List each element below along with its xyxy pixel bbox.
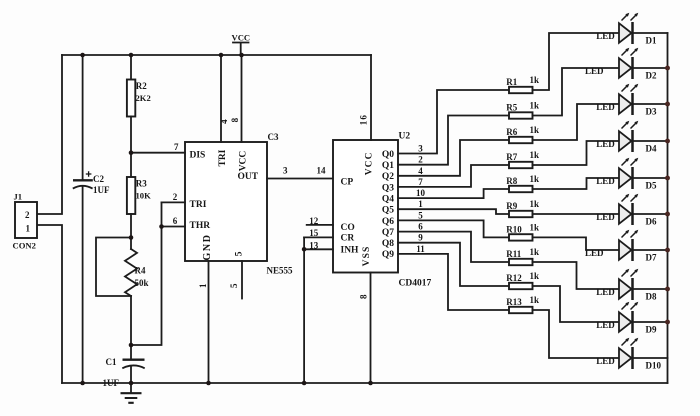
svg-text:R5: R5 xyxy=(506,103,517,113)
LED D10 xyxy=(596,338,667,371)
svg-text:1k: 1k xyxy=(530,101,540,111)
svg-text:R6: R6 xyxy=(506,127,517,137)
wire CR/INH tie to ground rail xyxy=(303,237,305,383)
wire 555 pin8 to VCC rail xyxy=(241,55,243,142)
svg-text:D4: D4 xyxy=(646,143,657,153)
resistor R13 1k xyxy=(506,295,539,313)
svg-text:J1: J1 xyxy=(14,192,23,202)
wire 4017 Q1 pin2 to R5 xyxy=(398,116,509,165)
svg-text:8: 8 xyxy=(230,117,240,122)
svg-text:VCC: VCC xyxy=(364,151,374,175)
node R4/C1/THR junction xyxy=(129,343,134,348)
svg-text:1: 1 xyxy=(26,224,31,234)
svg-text:Q7: Q7 xyxy=(382,228,394,238)
svg-text:12: 12 xyxy=(309,216,319,226)
svg-text:1k: 1k xyxy=(530,271,540,281)
ground xyxy=(121,383,142,403)
resistor R11 1k xyxy=(506,247,539,265)
svg-text:THR: THR xyxy=(190,221,211,231)
svg-text:7: 7 xyxy=(418,177,423,187)
svg-text:1k: 1k xyxy=(530,150,540,160)
svg-text:R12: R12 xyxy=(506,273,522,283)
wire 555 OUT pin3 to 4017 CP pin14 xyxy=(267,178,333,180)
svg-text:D3: D3 xyxy=(646,106,657,116)
capacitor C2 1UF xyxy=(73,55,110,383)
resistor R9 1k xyxy=(506,199,539,217)
resistor R1 1k xyxy=(506,75,539,93)
svg-text:D2: D2 xyxy=(646,70,657,80)
svg-text:LED: LED xyxy=(596,176,615,186)
svg-text:D6: D6 xyxy=(646,216,657,226)
wire R12 to LED D9 xyxy=(533,286,620,322)
svg-text:Q9: Q9 xyxy=(382,250,394,260)
svg-text:CO: CO xyxy=(341,223,355,233)
wire 4017 Q2 pin4 to R6 xyxy=(398,140,509,176)
wire top VCC rail xyxy=(62,54,371,56)
svg-text:8: 8 xyxy=(359,294,369,299)
wire 4017 Q5 pin1 to R9 xyxy=(398,209,509,214)
svg-text:CD4017: CD4017 xyxy=(399,279,432,289)
svg-text:2: 2 xyxy=(418,155,423,165)
svg-text:1: 1 xyxy=(418,199,423,209)
wire 555 TRI pin2 xyxy=(162,201,186,203)
svg-text:U2: U2 xyxy=(399,132,411,142)
wire 4017 VSS pin8 to ground rail xyxy=(370,273,372,384)
svg-text:C3: C3 xyxy=(268,132,279,142)
counter U2 CD4017 xyxy=(333,132,431,289)
svg-text:10: 10 xyxy=(416,188,426,198)
wire left rail upper (J1 pin2 to VCC rail) xyxy=(37,55,62,214)
svg-text:9: 9 xyxy=(418,233,423,243)
svg-text:R2: R2 xyxy=(136,81,147,91)
node R3/R4/wiper junction xyxy=(129,235,134,240)
wire 4017 Q8 pin9 to R12 xyxy=(398,243,509,286)
wire R8 to LED D5 xyxy=(533,178,620,189)
svg-text:LED: LED xyxy=(596,139,615,149)
node CR/INH tie junction xyxy=(302,247,307,252)
resistor R7 1k xyxy=(506,150,539,168)
svg-text:C1: C1 xyxy=(106,357,117,367)
svg-text:CR: CR xyxy=(341,233,355,243)
svg-text:R4: R4 xyxy=(135,266,146,276)
svg-text:15: 15 xyxy=(309,228,319,238)
svg-text:16: 16 xyxy=(358,114,368,125)
LED D9 xyxy=(596,302,667,335)
svg-text:5: 5 xyxy=(418,210,423,220)
wire 4017 Q3 pin7 to R7 xyxy=(398,165,509,187)
svg-text:LED: LED xyxy=(596,212,615,222)
resistor R8 1k xyxy=(506,174,539,192)
svg-text:VCC: VCC xyxy=(238,151,248,172)
svg-text:1UF: 1UF xyxy=(93,185,110,195)
svg-text:10K: 10K xyxy=(136,190,152,200)
svg-text:LED: LED xyxy=(596,320,615,330)
svg-text:R8: R8 xyxy=(506,176,517,186)
svg-text:5: 5 xyxy=(229,283,239,288)
svg-text:LED: LED xyxy=(596,356,615,366)
wire 4017 CR pin15 xyxy=(304,236,333,238)
wire 555 pin1 GND to rail xyxy=(208,261,210,383)
LED D5 xyxy=(596,158,667,191)
svg-text:Q4: Q4 xyxy=(382,195,394,205)
svg-text:VSS: VSS xyxy=(362,246,372,267)
svg-text:Q1: Q1 xyxy=(382,161,394,171)
wire right LED cathode rail xyxy=(667,33,669,383)
wire 4017 Q6 pin5 to R10 xyxy=(398,220,509,237)
svg-text:R11: R11 xyxy=(506,249,522,259)
svg-text:1k: 1k xyxy=(530,75,540,85)
svg-text:R10: R10 xyxy=(506,224,522,234)
svg-text:OUT: OUT xyxy=(238,172,259,182)
LED D1 xyxy=(596,13,667,46)
svg-text:1: 1 xyxy=(198,283,208,288)
svg-text:1UF: 1UF xyxy=(103,378,120,388)
wire R9 to LED D6 xyxy=(533,213,620,215)
wire R4 wiper loop xyxy=(96,238,131,297)
LED D8 xyxy=(596,269,667,302)
svg-text:D7: D7 xyxy=(646,252,657,262)
wire R1 to LED D1 xyxy=(533,33,620,90)
wire 4017 Q7 pin6 to R11 xyxy=(398,232,509,262)
svg-text:VCC: VCC xyxy=(232,33,251,43)
svg-text:D1: D1 xyxy=(646,35,657,45)
svg-text:TRI: TRI xyxy=(218,149,228,166)
svg-text:1k: 1k xyxy=(530,222,540,232)
svg-text:6: 6 xyxy=(418,222,423,232)
resistor R3 10K xyxy=(127,177,151,238)
node LED cathode rail junctions xyxy=(665,66,670,71)
svg-text:Q3: Q3 xyxy=(382,183,394,193)
node TRI/THR tie junction xyxy=(159,224,164,229)
wire TRI/THR tie down to C1 node xyxy=(131,202,162,345)
wire 555 pin4 to VCC rail xyxy=(220,55,222,142)
svg-text:D10: D10 xyxy=(646,360,662,370)
wire bottom ground rail xyxy=(62,382,668,384)
node R2/R3/DIS junction xyxy=(129,150,134,155)
svg-text:6: 6 xyxy=(173,216,178,226)
resistor R10 1k xyxy=(506,222,539,240)
wire R6 to LED D3 xyxy=(533,104,620,140)
svg-text:50k: 50k xyxy=(135,278,149,288)
svg-text:D9: D9 xyxy=(646,324,657,334)
wire 4017 Q9 pin11 to R13 xyxy=(398,254,509,310)
wire 4017 INH pin13 xyxy=(304,248,333,250)
wire R11 to LED D8 xyxy=(533,262,620,289)
wire 4017 CO pin12 stub xyxy=(307,224,333,226)
svg-text:1k: 1k xyxy=(530,199,540,209)
svg-text:R7: R7 xyxy=(506,152,517,162)
svg-text:Q2: Q2 xyxy=(382,172,394,182)
svg-text:3: 3 xyxy=(418,144,423,154)
LED D6 xyxy=(596,194,667,227)
connector J1 CON2 xyxy=(13,192,38,251)
svg-text:1k: 1k xyxy=(530,174,540,184)
svg-text:3: 3 xyxy=(283,166,288,176)
svg-text:5: 5 xyxy=(235,251,245,256)
svg-text:LED: LED xyxy=(596,287,615,297)
svg-text:CON2: CON2 xyxy=(13,241,36,251)
wire 555 DIS pin7 to R2/R3 junction xyxy=(131,152,185,154)
svg-text:TRI: TRI xyxy=(190,200,207,210)
wire 4017 Q0 pin3 to R1 xyxy=(398,90,509,154)
resistor R5 1k xyxy=(506,101,539,119)
wire left rail lower (J1 pin1 to ground rail) xyxy=(37,225,62,383)
timer IC C3 NE555 xyxy=(185,132,293,276)
wire R7 to LED D4 xyxy=(533,141,620,165)
svg-text:R9: R9 xyxy=(506,201,517,211)
svg-text:7: 7 xyxy=(174,142,179,152)
svg-text:2K2: 2K2 xyxy=(136,93,151,103)
wire 555 THR pin6 xyxy=(162,226,186,228)
svg-text:13: 13 xyxy=(309,241,319,251)
svg-text:R1: R1 xyxy=(506,77,517,87)
capacitor C1 1UF xyxy=(103,345,145,388)
svg-text:2: 2 xyxy=(173,192,178,202)
svg-text:R13: R13 xyxy=(506,297,522,307)
svg-text:C2: C2 xyxy=(93,174,104,184)
resistor R2 2K2 xyxy=(127,55,151,178)
resistor R6 1k xyxy=(506,125,539,143)
node ground rail junctions xyxy=(80,381,85,386)
wire R5 to LED D2 xyxy=(533,68,620,116)
LED D3 xyxy=(596,84,667,117)
svg-text:INH: INH xyxy=(341,245,360,255)
svg-text:4: 4 xyxy=(418,166,423,176)
svg-text:2: 2 xyxy=(25,210,30,220)
svg-text:11: 11 xyxy=(416,244,425,254)
wire 4017 Q4 pin10 to R8 xyxy=(398,189,509,198)
svg-text:Q0: Q0 xyxy=(382,150,394,160)
LED D4 xyxy=(596,121,667,154)
potentiometer R4 50k xyxy=(125,238,149,346)
svg-text:LED: LED xyxy=(585,66,604,76)
svg-text:LED: LED xyxy=(596,31,615,41)
svg-text:CP: CP xyxy=(341,178,354,188)
svg-text:1k: 1k xyxy=(530,125,540,135)
resistor R12 1k xyxy=(506,271,539,289)
LED D2 xyxy=(585,48,668,81)
LED D7 xyxy=(585,230,668,263)
svg-text:1k: 1k xyxy=(530,247,540,257)
svg-text:DIS: DIS xyxy=(190,151,206,161)
wire R10 to LED D7 xyxy=(533,237,620,250)
wire 4017 pin16 to VCC rail xyxy=(370,55,372,140)
svg-text:Q6: Q6 xyxy=(382,217,394,227)
svg-text:1k: 1k xyxy=(530,295,540,305)
svg-text:LED: LED xyxy=(585,248,604,258)
node VCC rail junctions xyxy=(80,53,85,58)
svg-text:LED: LED xyxy=(596,102,615,112)
wire R13 to LED D10 xyxy=(533,310,620,358)
svg-text:Q8: Q8 xyxy=(382,239,394,249)
svg-text:R3: R3 xyxy=(136,179,147,189)
svg-text:D5: D5 xyxy=(646,180,657,190)
power symbol VCC xyxy=(232,33,251,56)
svg-text:NE555: NE555 xyxy=(267,266,294,276)
svg-text:14: 14 xyxy=(317,166,327,176)
svg-text:D8: D8 xyxy=(646,291,657,301)
wire 555 pin5 stub xyxy=(241,261,243,299)
svg-text:GND: GND xyxy=(202,233,213,260)
svg-text:Q5: Q5 xyxy=(382,206,394,216)
